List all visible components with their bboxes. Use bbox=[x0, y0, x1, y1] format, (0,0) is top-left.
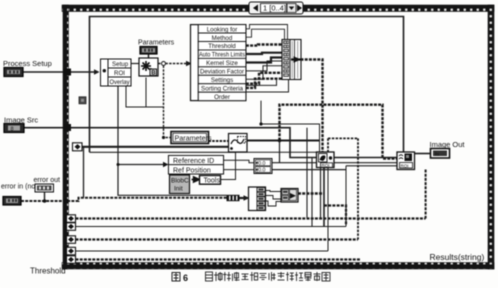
wire: XIB to index node arrow bbox=[240, 197, 248, 199]
wire: ROI VI out bbox=[247, 140, 320, 142]
svg-text:error in (no: error in (no bbox=[1, 184, 35, 191]
svg-text:Parameters: Parameters bbox=[175, 134, 213, 143]
wires: between index grids bbox=[266, 191, 282, 192]
svg-text:8: 8 bbox=[11, 127, 14, 133]
svg-text:BlobC: BlobC bbox=[171, 178, 189, 185]
local tunnel y239 bbox=[67, 236, 76, 244]
svg-text:error out: error out bbox=[34, 177, 61, 184]
svg-text:Reference ID: Reference ID bbox=[173, 158, 214, 165]
svg-text:ROI: ROI bbox=[114, 70, 125, 77]
sequence frame bottom border bbox=[62, 263, 494, 270]
wire: overlay row down and to blob nodes bbox=[118, 86, 227, 195]
svg-text:Setup: Setup bbox=[112, 61, 129, 68]
wire: order row down then right bbox=[261, 101, 320, 152]
caption glyphs 目标检测与距离测量程序框图 bbox=[206, 272, 213, 281]
wire: loops under bundle bbox=[246, 80, 277, 86]
wire: under function node bbox=[145, 78, 147, 108]
svg-text:Init: Init bbox=[174, 186, 183, 193]
svg-text:Kernel Size: Kernel Size bbox=[206, 60, 238, 67]
wire: error in run bbox=[21, 198, 227, 201]
wire: particle VI dashed out to unbundle table bbox=[158, 63, 187, 65]
wire: point cluster outputs to overlay U5 bbox=[272, 162, 397, 164]
Tools box bbox=[200, 176, 221, 185]
wire: Process Setup to property node bbox=[23, 71, 98, 73]
svg-text:Is: Is bbox=[435, 152, 440, 158]
sequence frame right border bbox=[488, 5, 494, 269]
svg-text:Ref Position: Ref Position bbox=[173, 167, 211, 174]
wire: node B to Image Out bbox=[415, 153, 431, 155]
wire: bundle output cluster to overlay U4 top bbox=[301, 60, 323, 153]
wire: error out branch bbox=[44, 192, 46, 202]
terminal error out bbox=[35, 184, 54, 192]
svg-text:Looking for: Looking for bbox=[207, 26, 238, 33]
junction error out bbox=[43, 199, 47, 203]
svg-text:Method: Method bbox=[212, 35, 233, 42]
wires: table to bundle bbox=[246, 25, 288, 41]
svg-text:Overlay: Overlay bbox=[110, 79, 131, 86]
svg-text:Threshold: Threshold bbox=[208, 43, 236, 50]
svg-text:Tools: Tools bbox=[204, 178, 221, 185]
tunnel Image Src bbox=[63, 124, 71, 131]
wire: node A to node B image bbox=[334, 157, 397, 159]
wire: tools output up bbox=[221, 152, 236, 179]
local tunnel y147 bbox=[73, 143, 83, 151]
VI particle analysis (snowflake icon with B) bbox=[139, 58, 158, 77]
wire: VI out down branch bbox=[279, 141, 281, 163]
svg-text:Results(string): Results(string) bbox=[430, 252, 485, 262]
svg-text:Auto Thresh Limits: Auto Thresh Limits bbox=[199, 52, 245, 59]
local tunnel y251 bbox=[67, 247, 76, 255]
svg-text:Image Out: Image Out bbox=[430, 140, 466, 149]
svg-text:B: B bbox=[151, 71, 156, 77]
terminal Image Out bbox=[431, 149, 450, 159]
svg-text:(0.0: (0.0 bbox=[257, 168, 266, 174]
terminal Process Setup bbox=[4, 68, 23, 77]
wire: vertical below node A to local 1 bbox=[320, 168, 322, 219]
svg-text:Sorting Criteria: Sorting Criteria bbox=[201, 86, 244, 93]
wire: branch to Reference ID arrow bbox=[118, 164, 163, 166]
svg-text:6: 6 bbox=[183, 273, 188, 283]
svg-text:Settings: Settings bbox=[211, 77, 233, 84]
sequence selector "1 [0..4]" bbox=[249, 2, 303, 14]
wire: branch along y152.3 toward overlay U4 bbox=[90, 151, 236, 153]
wire: local3 riser across to node A top bbox=[328, 137, 358, 139]
wire: image loop around top (x89.5 up, y16.5 across, x403.5 down to overlay VI U5) bbox=[90, 17, 404, 153]
local tunnel y259 bbox=[67, 256, 76, 263]
tunnel Process Setup bbox=[63, 69, 71, 76]
wire: Parameters local to ROI VI bbox=[209, 140, 229, 142]
wire: particle VI down to Parameters local bbox=[164, 66, 172, 138]
sequence local wires bottom bbox=[76, 217, 426, 219]
svg-text:Order: Order bbox=[214, 94, 230, 101]
wire: node B bottom down to local 1 wire bbox=[425, 170, 427, 219]
local tunnel y226 bbox=[67, 223, 76, 231]
svg-text:Parameters: Parameters bbox=[138, 40, 175, 47]
terminal Parameters bbox=[140, 47, 157, 55]
wire: vertical aux down bbox=[311, 158, 313, 227]
wire: local2 riser to node B input bbox=[345, 166, 347, 227]
svg-text:ROI: ROI bbox=[322, 163, 330, 168]
arrow to Tools bbox=[192, 177, 200, 182]
wire: vertical image branch down bbox=[306, 128, 308, 219]
terminal Image Src bbox=[4, 124, 24, 133]
svg-text:1 [0..4]: 1 [0..4] bbox=[263, 4, 286, 13]
svg-text:Process Setup: Process Setup bbox=[3, 59, 52, 68]
wire: image branch down to error/result path bbox=[83, 147, 85, 198]
wire: result cluster out, jog down bbox=[298, 192, 324, 194]
图 bbox=[172, 273, 180, 282]
wire: reference rows to point cluster bbox=[224, 160, 255, 162]
sequence frame top border bbox=[62, 5, 494, 12]
wire: thick image wire from left local to ROI VI bbox=[82, 146, 230, 148]
svg-text:ROI: ROI bbox=[401, 163, 409, 168]
terminal error in bbox=[3, 197, 21, 206]
wire: setup row to particle VI bbox=[131, 63, 139, 65]
svg-text:(0.0: (0.0 bbox=[257, 161, 266, 167]
tunnel gray on loop border bbox=[79, 97, 86, 104]
wire: branch to overlay U5 via y104.7 bbox=[280, 105, 398, 159]
local tunnel y218 bbox=[67, 215, 76, 223]
junction error at border bbox=[63, 198, 68, 203]
svg-text:Deviation Factor: Deviation Factor bbox=[200, 69, 244, 76]
svg-text:Threshold: Threshold bbox=[30, 267, 66, 276]
sequence frame left border bbox=[63, 5, 69, 269]
wire: overlay short L bbox=[126, 86, 164, 107]
wire: Image Src long run then down to IMAQ overlay U4 bbox=[24, 128, 317, 158]
